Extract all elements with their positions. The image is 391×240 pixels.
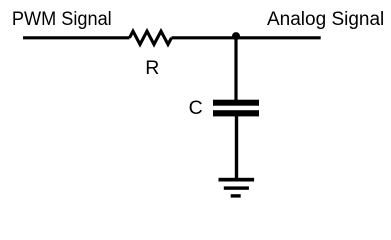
svg-text:PWM Signal: PWM Signal <box>12 9 112 30</box>
ground symbol bar 2 (middle) <box>224 186 249 189</box>
svg-text:C: C <box>189 97 203 119</box>
wire: junction down to capacitor top plate <box>234 38 237 101</box>
wire: resistor R to output node <box>172 36 321 39</box>
capacitor C top plate <box>213 100 259 106</box>
svg-text:Analog Signal: Analog Signal <box>267 9 384 30</box>
resistor R (zigzag body) <box>130 31 172 44</box>
wire: capacitor bottom plate down to ground <box>235 116 238 179</box>
ground symbol bar 3 (bottom, smallest) <box>231 194 241 197</box>
node junction dot (R / C / output) <box>232 32 240 40</box>
wire: input wire from PWM Signal to resistor R <box>23 36 130 39</box>
capacitor C bottom plate <box>213 110 259 116</box>
svg-text:R: R <box>145 57 159 79</box>
ground symbol bar 1 (top, widest) <box>219 178 255 182</box>
